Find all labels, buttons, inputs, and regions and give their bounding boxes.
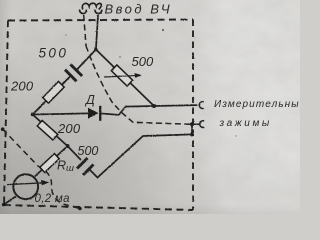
adjustment arrow through resistor 500 <box>104 76 137 78</box>
svg-text:Измерительные: Измерительные <box>214 99 300 110</box>
junction: meter wire to border corner <box>2 203 6 207</box>
svg-text:зажимы: зажимы <box>219 118 272 129</box>
svg-text:500: 500 <box>132 54 154 69</box>
junction: corner-cut line to bottom border <box>78 207 82 211</box>
svg-text:0,2 ма: 0,2 ма <box>35 193 70 205</box>
svg-text:200: 200 <box>57 121 81 136</box>
shield enclosure dashed border: top edge <box>8 20 193 21</box>
wire: left input lead (dashed) down <box>84 15 86 46</box>
shield enclosure dashed border: left edge <box>4 21 8 206</box>
wire: terminal 2 short lead <box>192 123 199 125</box>
input terminal left (arc) <box>80 10 87 14</box>
diode D (anode triangle) <box>88 108 99 119</box>
meter M 0.2mA (circle) <box>13 174 38 199</box>
svg-text:Rш: Rш <box>57 159 74 175</box>
wire: upper-left bridge arm <box>33 50 96 115</box>
meter needle arrow <box>7 183 43 185</box>
scan speckles <box>65 29 236 151</box>
svg-text:Ввод ВЧ: Ввод ВЧ <box>105 2 173 17</box>
shield enclosure dashed border: right edge <box>192 20 194 211</box>
capacitor 500 (upper-left arm) plate 1 <box>65 70 77 82</box>
wire: diode to right vertex <box>101 106 154 115</box>
resistor R shunt <box>40 154 59 173</box>
resistor 200 (lower-left arm) <box>37 120 58 140</box>
wire: lower capacitor to terminal 2 <box>89 124 192 177</box>
wire: meter to bottom-left corner <box>4 196 16 204</box>
resistor 500 adjustable (upper-right arm) <box>111 65 132 86</box>
measuring terminal 2 (arc) <box>200 121 205 128</box>
wire: upper-right bridge arm <box>96 50 154 107</box>
capacitor 500 (lower arm) plate 1 <box>77 158 88 169</box>
capacitor 500 (upper-left arm) plate 2 <box>70 64 82 76</box>
resistor 200 (upper-left arm) <box>43 81 64 103</box>
node: bridge left vertex <box>31 113 35 117</box>
junction: terminal 2 node <box>190 122 194 126</box>
measuring terminal 1 (arc) <box>199 102 204 109</box>
node: bridge right vertex <box>152 104 156 108</box>
shorting jumper plug (m-shaped) <box>82 3 101 9</box>
wire: right vertex to measuring terminal 1 <box>154 104 197 107</box>
wire: left vertex to diode <box>33 113 88 114</box>
svg-text:500: 500 <box>39 46 69 61</box>
wire: lower-left bridge arm <box>33 115 68 147</box>
diode D cathode bar <box>99 106 101 121</box>
svg-text:Д: Д <box>84 93 95 107</box>
wire: dashed diagonal from left input to output (crosses diode line) <box>86 46 190 124</box>
svg-text:500: 500 <box>78 144 99 158</box>
wire: junction to lower capacitor <box>68 146 82 160</box>
node: bridge top vertex <box>94 48 98 52</box>
node: bottom junction <box>66 144 70 148</box>
capacitor 500 (lower arm) plate 2 <box>83 165 94 176</box>
input terminal right (arc) <box>95 10 102 14</box>
svg-text:200: 200 <box>10 79 34 94</box>
wire: shunt branch junction to meter <box>35 146 68 177</box>
junction: lower wire corner at right border <box>190 132 194 136</box>
shield enclosure dashed border: bottom edge <box>4 205 193 210</box>
shield corner cut dashed line around meter <box>3 129 80 208</box>
junction: corner-cut line to left border <box>1 127 5 131</box>
wire: right input lead down to bridge top <box>96 15 98 50</box>
